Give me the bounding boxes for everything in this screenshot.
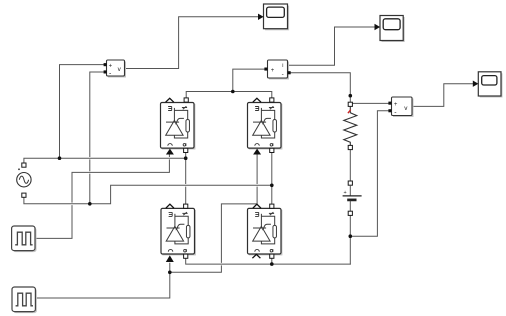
wire W14 pulse generator 1 to IGBT1 gate [35, 155, 169, 238]
IGBT U3 emitter port [184, 254, 188, 258]
wire VM1 plus branch from bus A [60, 65, 104, 159]
wire W9 voltage measurement V2 output to Scope3 [412, 84, 473, 107]
IGBT U4 emitter port [270, 254, 274, 258]
svg-text:+: + [394, 102, 398, 108]
scope Scope2 input arrow [375, 24, 381, 30]
IGBT U4 gate chevron top [253, 204, 261, 208]
wire W16b branch to IGBT4 top arrow (gap at wire D) [170, 204, 256, 272]
wire W8 resistor top node to voltage measurement V2 plus [353, 102, 389, 104]
wire resistor top junction down to port [349, 96, 351, 103]
wire W10 bus A from AC source plus [24, 158, 186, 163]
IGBT U1 emitter port [184, 148, 188, 152]
IGBT U2 m-port chevron [253, 98, 261, 102]
IGBT U1 m-port chevron [166, 98, 174, 102]
junction dot D7 [349, 94, 353, 98]
IGBT U4 collector port [270, 204, 274, 208]
IGBT U4 m-port chevron bottom [252, 254, 260, 258]
IGBT U2 emitter port [270, 148, 274, 152]
IGBT U2 collector port [270, 98, 274, 102]
DC voltage source battery B1 [343, 181, 362, 215]
wire battery bottom down to bottom rail [349, 215, 351, 264]
pulse generator PG1 [12, 226, 37, 252]
IGBT U3 (bottom-left thyristor leg) [161, 208, 196, 255]
wire W16 pulse generator 2 to IGBT3 gate and IGBT4 gate [36, 263, 170, 298]
wire W15 IGBT2 gate stem down to IGBT4 node (gap at wire B) [256, 155, 258, 204]
wire W3 top bus to current measurement input [233, 69, 265, 91]
junction dot D4 [270, 184, 274, 188]
voltage measurement VM1 [104, 60, 126, 78]
IGBT U2 gate arrow [253, 149, 261, 155]
IGBT U2 (top-right thyristor leg) [248, 103, 283, 150]
junction dot D2 [184, 156, 188, 160]
svg-text:-: - [282, 71, 284, 78]
svg-text:i: i [282, 63, 283, 69]
IGBT U4 (bottom-right thyristor leg) [248, 208, 283, 255]
series RLC branch R1 [344, 102, 357, 149]
junction dot D5 [168, 271, 172, 275]
AC voltage source VS1 [17, 163, 31, 197]
svg-text:+: + [344, 190, 347, 196]
scope Scope2 [380, 16, 405, 43]
voltage measurement VM2 [388, 97, 413, 117]
scope Scope1 [264, 4, 290, 30]
junction dot D8 [349, 234, 353, 238]
scope Scope1 input arrow [258, 14, 264, 20]
wire VM1 minus branch vertical (gaps at crossings) [90, 72, 104, 204]
svg-text:+: + [109, 63, 113, 69]
IGBT U3 m-port chevron [166, 204, 174, 208]
current measurement CM1 [264, 60, 290, 80]
pulse generator PG2 [12, 287, 37, 313]
wire phase mid vertical IGBT1 emitter to IGBT3 collector (gap at wire B) [185, 152, 187, 204]
IGBT U1 collector port [184, 98, 188, 102]
scope Scope3 [478, 72, 502, 98]
svg-text:+: + [271, 68, 275, 74]
IGBT U1 gate arrow [166, 149, 174, 155]
wire IGBT4 emitter stem to bottom rail [271, 258, 273, 264]
IGBT U3 gate arrow [166, 255, 174, 262]
IGBT U1 (top-left thyristor leg) [161, 103, 196, 150]
wire W7 battery bottom node to voltage measurement V2 minus [350, 111, 388, 236]
wire W2 top bus between IGBT1 and IGBT2 collectors [186, 92, 272, 100]
wire D bottom rail IGBT3 emitter to battery minus [186, 254, 351, 264]
junction dot D3 [88, 202, 92, 206]
scope Scope3 input arrow [473, 81, 479, 87]
wire W5 current measurement minus to resistor top [291, 73, 351, 96]
junction dot D1 [58, 156, 62, 160]
wire W13 IGBT2 emitter to IGBT4 collector vertical [271, 152, 273, 204]
IGBT U3 collector port [184, 204, 188, 208]
wire resistor bottom to battery top [349, 150, 351, 181]
wire W1 voltage measurement V1 output to Scope1 [125, 17, 259, 69]
junction dot D9 [231, 90, 235, 94]
junction dot D6 [270, 262, 274, 266]
wire W4 current measurement i output to Scope2 [289, 27, 375, 65]
wire W12 AC source minus lower run [24, 185, 272, 204]
